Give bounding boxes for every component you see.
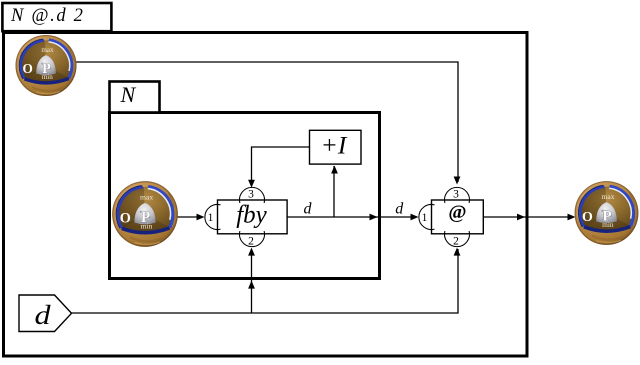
operator box fby <box>218 200 288 234</box>
sphere icon inside N <box>112 181 178 247</box>
operator box @ <box>432 200 484 234</box>
result sphere icon right <box>575 181 639 245</box>
svg-text:3: 3 <box>453 189 459 201</box>
inner tab box <box>110 82 160 113</box>
svg-text:2: 2 <box>248 236 254 248</box>
arrowhead into port 1 of fby <box>197 214 205 221</box>
wire from +1 output to port 3 of fby <box>252 147 310 181</box>
input sphere icon top left <box>15 35 76 96</box>
arrowhead into port 2 of @ <box>454 248 461 256</box>
input tag d <box>19 295 72 332</box>
svg-text:@: @ <box>448 202 466 223</box>
arrowhead into +1 <box>331 166 338 174</box>
svg-text:d: d <box>304 201 313 218</box>
arrowhead into port 3 of @ <box>454 177 461 185</box>
svg-text:fby: fby <box>236 202 267 229</box>
port 2 of @ <box>445 231 470 247</box>
port 2 of fby <box>240 231 265 247</box>
arrowhead into result sphere <box>568 214 576 221</box>
arrowhead at N border on d branch <box>248 281 255 289</box>
arrowhead at N border on fby output <box>370 214 378 221</box>
svg-text:2: 2 <box>453 236 459 248</box>
svg-text:d: d <box>35 300 52 330</box>
wire bottom d bus to port 2 of @ <box>71 249 458 313</box>
wire sphere2 to port 1 of fby <box>174 216 198 218</box>
wire branch d bus to port 2 of fby <box>251 249 253 313</box>
svg-text:N @.d 2: N @.d 2 <box>10 6 85 26</box>
wire from input sphere to port 3 of @ <box>75 62 458 182</box>
title tab box <box>2 3 111 31</box>
svg-text:N: N <box>120 82 137 107</box>
arrowhead into port 1 of @ <box>411 214 419 221</box>
inner node box N <box>110 113 380 279</box>
port 3 of fby <box>240 187 265 203</box>
outer node box N@.d2 <box>4 33 528 357</box>
arrowhead into port 2 of fby <box>248 248 255 256</box>
port 1 of fby <box>205 205 221 230</box>
wire @ output to result sphere <box>483 216 572 218</box>
arrowhead into port 3 of fby <box>248 180 255 188</box>
svg-text:d: d <box>395 201 404 218</box>
operator box +1 <box>310 130 362 164</box>
svg-text:1: 1 <box>208 212 214 224</box>
svg-text:1: 1 <box>422 212 428 224</box>
svg-text:+I: +I <box>321 131 348 160</box>
svg-text:3: 3 <box>248 189 254 201</box>
wire fby output to port 1 of @ <box>287 216 412 218</box>
port 3 of @ <box>445 187 470 203</box>
port 1 of @ <box>419 205 435 230</box>
arrowhead at outer border on @ output <box>517 214 525 221</box>
wire branch fby output up to +1 input <box>333 166 335 217</box>
